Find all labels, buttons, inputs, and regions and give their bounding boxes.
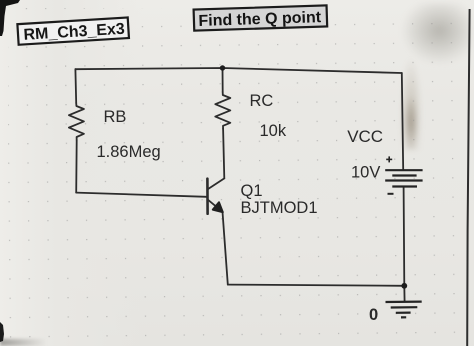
svg-text:10k: 10k (260, 122, 287, 140)
title box RM_Ch3_Ex3 (17, 17, 129, 44)
circuit wires (69, 68, 405, 302)
resistor RC (215, 92, 230, 129)
transistor Q1 emitter arrow (213, 202, 223, 212)
title box Find the Q point (194, 5, 328, 30)
battery minus sign (388, 193, 394, 195)
battery V1 plates (385, 170, 422, 186)
scan edge: top-left black wedge (0, 0, 20, 36)
wire: battery top lead (402, 73, 403, 170)
svg-text:BJTMOD1: BJTMOD1 (241, 199, 318, 217)
svg-text:0: 0 (369, 306, 378, 324)
transistor Q1 collector diagonal (208, 178, 225, 189)
svg-text:1.86Meg: 1.86Meg (97, 143, 161, 161)
scan edge: bottom-left black sliver (0, 322, 4, 342)
wire: ground stub (403, 286, 405, 302)
top-right gray smudge (401, 3, 471, 65)
node: junction dot top (collector rail) (220, 65, 225, 70)
wire: battery bottom lead (403, 187, 406, 286)
svg-text:RB: RB (104, 108, 127, 126)
wire: RC top (222, 68, 224, 92)
wire: RB bottom to bend (75, 140, 78, 193)
battery plus sign (386, 156, 392, 162)
svg-text:VCC: VCC (347, 127, 383, 146)
wire: bottom rail (228, 285, 404, 286)
resistor RB (69, 103, 84, 140)
bottom-left dark smear (0, 339, 55, 346)
wire: top rail (75, 68, 401, 73)
svg-text:10V: 10V (351, 164, 380, 182)
wire: base lead (76, 193, 206, 197)
wire: emitter drop (223, 212, 228, 285)
wire: RC bottom to collector (223, 129, 224, 179)
scan edge: right paper edge line (467, 9, 469, 346)
svg-text:Q1: Q1 (241, 182, 263, 200)
svg-text:RC: RC (250, 92, 274, 110)
ground symbol (386, 302, 422, 318)
transistor Q1 emitter diagonal (208, 200, 223, 212)
node: junction dot bottom (emitter/battery/ground) (401, 283, 407, 289)
brownish streak near battery wire (400, 58, 422, 150)
transistor Q1 base bar (206, 179, 209, 214)
wire: left drop to RB (74, 69, 77, 103)
